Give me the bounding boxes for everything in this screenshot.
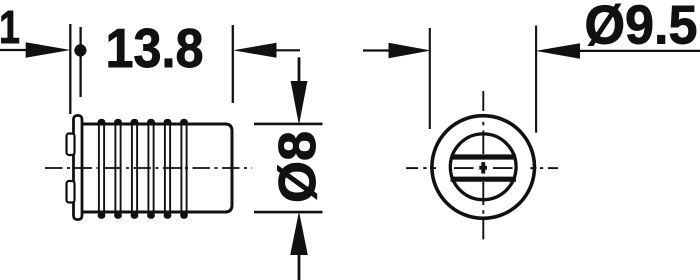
dim 8: upper leader vertical line bbox=[298, 57, 301, 82]
dim 8: upper arrowhead pointing down bbox=[291, 81, 308, 125]
dim 8: top extension line bbox=[254, 123, 323, 126]
dim 8: lower leader vertical line bbox=[298, 254, 301, 280]
rib 3 bbox=[131, 119, 139, 219]
left view: body top edge redrawn over ribs bbox=[81, 123, 228, 126]
right view: horizontal centerline bbox=[406, 167, 558, 169]
left view: body outline bbox=[81, 124, 233, 212]
dim 8: lower arrowhead pointing up bbox=[290, 212, 308, 256]
dim 9.5: left extension line bbox=[429, 28, 431, 129]
dim 1: arrowhead pointing right bbox=[26, 42, 71, 58]
dim 1: dot terminator bbox=[74, 44, 86, 56]
dim 13.8: right extension line bbox=[232, 25, 234, 103]
rib 6 bbox=[180, 119, 188, 219]
svg-text:1: 1 bbox=[0, 1, 20, 53]
dim 1: leader line bbox=[0, 49, 27, 51]
right view: slot lower line bbox=[451, 177, 517, 182]
left view: horizontal centerline bbox=[45, 167, 252, 169]
left view: upper tab bbox=[67, 134, 75, 156]
dim 9.5: right arrowhead pointing left bbox=[536, 43, 581, 59]
left view: body bottom edge redrawn over ribs bbox=[81, 211, 228, 214]
left view: flange (head) bbox=[74, 116, 83, 220]
dim 8: bottom extension line bbox=[254, 211, 323, 214]
dim 13.8: right tail line bbox=[277, 49, 301, 51]
rib 2 bbox=[114, 119, 122, 219]
dim 9.5: right extension line bbox=[535, 26, 537, 133]
svg-text:13.8: 13.8 bbox=[106, 18, 204, 79]
left view: lower tab bbox=[67, 181, 75, 203]
svg-text:Ø9.5: Ø9.5 bbox=[585, 0, 698, 56]
rib 4 bbox=[147, 119, 155, 219]
dim 9.5: right tail line bbox=[579, 50, 700, 52]
right view: outer circle bbox=[432, 116, 535, 219]
dim 9.5: mid arrowhead pointing right bbox=[389, 43, 432, 59]
right view: slot upper line bbox=[451, 154, 517, 159]
dim 1: right extension line bbox=[79, 27, 81, 97]
dim 13.8: right arrowhead pointing left bbox=[233, 43, 277, 58]
dim 9.5: mid tail line bbox=[363, 49, 390, 51]
right view: inner circle bbox=[450, 134, 516, 200]
svg-text:Ø8: Ø8 bbox=[269, 131, 327, 203]
rib 5 bbox=[164, 119, 172, 219]
rib 1 bbox=[98, 119, 106, 219]
right view: vertical centerline bbox=[482, 91, 484, 239]
right view: center cross mark bbox=[481, 162, 485, 174]
dim 13.8: left extension line bbox=[69, 24, 71, 114]
